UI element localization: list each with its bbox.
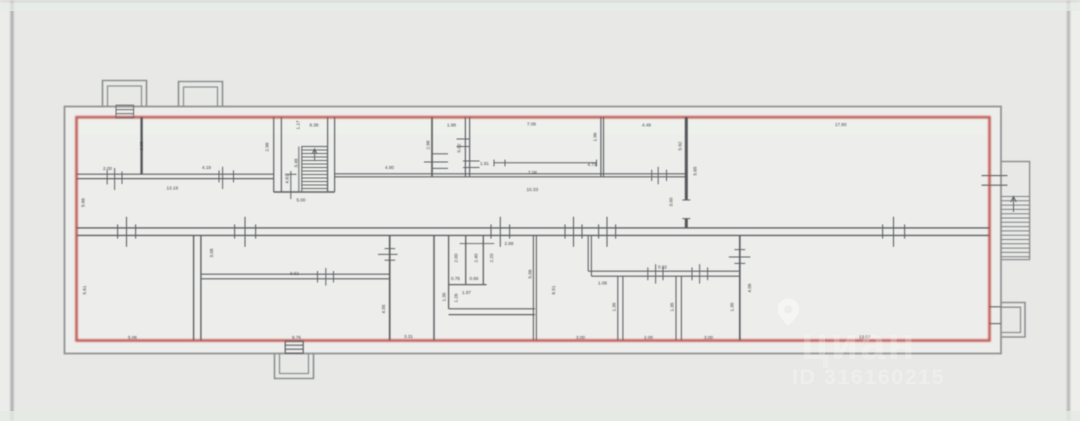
external staircase treads [1001,197,1030,257]
svg-text:циан: циан [801,318,917,369]
left margin strip [0,0,11,421]
svg-text:5.66: 5.66 [81,198,86,207]
svg-text:3.00: 3.00 [576,335,585,340]
svg-text:3.31: 3.31 [404,334,413,339]
bottom band wall x740 [739,235,741,340]
bottom band wall x620 double [618,276,623,340]
svg-text:7.08: 7.08 [528,170,537,175]
svg-text:1.35: 1.35 [670,302,675,311]
window symbol wall2 at x893 [883,217,905,247]
window symbol wall2 at x245 [235,217,256,247]
dimension texts top band [81,120,847,285]
bottom band wall x678 double [676,276,681,340]
plan paper interior [64,106,1002,354]
bottom porch steps [285,341,303,353]
window symbol wall2 at x607 [599,217,616,247]
svg-text:2.00: 2.00 [103,166,112,171]
wall top band x601 double [601,117,604,176]
svg-text:3.08: 3.08 [209,248,214,257]
right bottom porch inner [1001,307,1021,332]
entrance steps top-left [116,105,134,118]
closet bottom shelf [449,284,487,286]
bottom band wall x390 [389,235,391,340]
right margin strip [1070,0,1080,421]
door symbol on wall y174 at x658 [652,167,667,184]
opening symbol corridor top wall at x222 [219,167,234,189]
bottom band wall x201 [200,235,202,340]
window on wall x740 [729,250,751,264]
porch B top inner [184,87,218,107]
watermark pin icon [778,298,799,325]
svg-text:ID 316160215: ID 316160215 [792,365,945,389]
outer building outline [65,107,1002,354]
right porch door ticks [989,307,1001,324]
svg-text:4.49: 4.49 [642,123,651,128]
bottom porch outer [275,354,314,379]
svg-text:4.90: 4.90 [385,165,394,170]
stair treads internal [302,147,328,193]
corridor bottom wall full width upper line [77,227,990,229]
svg-text:1.97: 1.97 [462,290,471,295]
bottom band wall x434 [433,235,435,340]
corridor top wall left segment [77,174,274,178]
wall x686 thick with door gap [685,117,688,228]
svg-text:3.48: 3.48 [294,158,299,167]
svg-text:2.98: 2.98 [265,142,270,151]
svg-text:1.08: 1.08 [598,281,607,286]
svg-text:4.73: 4.73 [588,162,597,167]
bottom band wall x193.6 [193,235,195,340]
window symbol wall2 at x573 [565,217,582,247]
window on partition y276 [318,268,334,286]
opening symbol corridor top wall at x114 [107,168,122,190]
svg-text:0.66: 0.66 [470,276,479,281]
svg-text:2.68: 2.68 [505,241,514,246]
svg-text:5.61: 5.61 [82,285,87,294]
svg-text:17.80: 17.80 [835,122,847,127]
svg-text:2.98: 2.98 [139,141,144,150]
closet wall x466 [465,235,467,284]
svg-text:1.17: 1.17 [296,120,301,129]
external staircase right box [1001,162,1030,260]
svg-text:5.06: 5.06 [128,335,137,340]
top tint band [0,3,1080,11]
porch A top-left inner [108,86,142,107]
svg-text:4.81: 4.81 [285,174,290,183]
corridor bottom wall full width lower line [77,234,990,236]
left page edge line [11,0,14,421]
window on partition y273 at 700 [692,264,708,283]
svg-text:5.02: 5.02 [457,143,462,152]
svg-text:2.98: 2.98 [426,140,431,149]
svg-text:8.38: 8.38 [310,123,319,128]
stairwell right wall [328,117,335,192]
right bottom porch outer [1001,303,1025,338]
svg-text:2.00: 2.00 [454,253,459,262]
svg-text:1.26: 1.26 [454,293,459,302]
svg-text:5.06: 5.06 [528,269,533,278]
svg-text:1.35: 1.35 [730,302,735,311]
door jamb ticks on x686 [682,200,690,219]
dimension texts bottom band [82,248,871,340]
window symbol wall2 at x500 [491,217,510,247]
svg-text:10.33: 10.33 [527,187,539,192]
svg-text:3.00: 3.00 [669,197,674,206]
svg-text:9.62: 9.62 [290,271,299,276]
wall x589 upper part double [588,235,591,276]
stairwell bottom wall [274,191,335,193]
svg-text:1.35: 1.35 [612,302,617,311]
stairwell left wall [274,117,282,192]
red boundary line [77,117,990,340]
door ticks at x432 lobby [424,154,448,169]
svg-text:9.76: 9.76 [292,335,301,340]
light band under top red line [78,120,988,135]
counter line in room 468-600 [494,160,597,167]
porch A top-left outer [103,81,147,107]
bottom band wall x535 double [533,235,536,340]
svg-text:0.76: 0.76 [451,276,460,281]
wall top band x466 double [465,117,469,177]
door ticks on x466 wall [457,139,480,168]
window on wall x390 [378,249,398,261]
wall top band x432 [431,117,433,176]
svg-text:1.96: 1.96 [593,132,598,141]
bottom porch inner [280,354,309,374]
door ticks to external stair landing [982,176,1008,186]
porch B top outer [179,82,223,107]
bottom tint band [0,411,1080,421]
closet block left wall x448 [448,235,450,308]
svg-text:3.00: 3.00 [704,335,713,340]
svg-text:4.19: 4.19 [202,165,211,170]
svg-text:13.18: 13.18 [167,186,179,191]
svg-text:5.65: 5.65 [693,166,698,175]
closet wall x483 [482,235,484,284]
stair handrail line [298,147,300,193]
double wall below closets [449,309,535,315]
right page edge line [1067,0,1070,421]
svg-text:1.88: 1.88 [447,123,456,128]
stairwell door dimension [285,171,297,199]
svg-text:1.91: 1.91 [480,161,489,166]
svg-text:6.51: 6.51 [551,285,556,294]
svg-text:2.20: 2.20 [489,253,494,262]
svg-text:2.40: 2.40 [474,253,479,262]
external staircase up arrow [1011,197,1016,213]
svg-text:4.05: 4.05 [381,304,386,313]
svg-text:7.08: 7.08 [527,122,536,127]
svg-text:0.82: 0.82 [658,265,667,270]
window on partition y273 at 655 [648,264,663,283]
svg-text:2.00: 2.00 [644,335,653,340]
svg-text:5.92: 5.92 [678,141,683,150]
top edge shade [0,0,1080,3]
svg-text:5.00: 5.00 [297,198,306,203]
window symbol wall2 at x126 [118,217,136,247]
svg-text:1.35: 1.35 [442,292,447,301]
stair up arrow [312,149,317,160]
closet dimension line [460,241,495,247]
partition y273 right section double [588,271,739,276]
wall top band x141 [140,117,142,174]
svg-text:4.06: 4.06 [747,283,752,292]
partition y276 left section double [201,274,390,279]
corridor top wall right segment [335,174,686,177]
